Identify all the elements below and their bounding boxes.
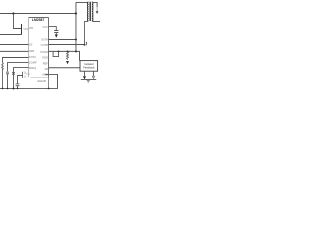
wire: left pin FREQ loop (14, 68, 29, 89)
wire: feedback right lead (93, 71, 95, 76)
wire: primary bottom to switch node (85, 21, 89, 44)
svg-text:GND: GND (42, 55, 48, 59)
node: dots on PGND rail (58, 50, 60, 52)
transformer T1 primary winding (87, 2, 88, 21)
transformer T1 secondary winding (92, 2, 93, 21)
wire: secondary top output (92, 2, 97, 7)
capacitor C3 marks (12, 72, 15, 74)
resistor R2 zigzag (67, 51, 69, 59)
wire: vertical VIN bus (75, 2, 77, 51)
svg-text:Isolated: Isolated (84, 62, 94, 66)
isolated feedback block (80, 61, 98, 72)
capacitor C5 plates (54, 31, 58, 33)
capacitor C4 plates (16, 84, 20, 86)
wire: top input rail (0, 12, 76, 14)
ground bars below rail (87, 80, 90, 82)
wire: bottom ground rail and GND loop (0, 74, 58, 88)
wire: bus to transformer primary top (76, 1, 88, 3)
wire: left pin SYNC loop (3, 58, 29, 63)
svg-text:Feedback: Feedback (83, 65, 95, 69)
svg-text:SYNC: SYNC (29, 55, 36, 59)
wire: secondary bottom output (92, 20, 100, 22)
node: switch node dot (84, 44, 86, 46)
node: input junction dot (12, 12, 14, 14)
wire: OUTB to transformer switch node (49, 44, 85, 46)
wire: FB pin to isolated feedback box (49, 67, 81, 69)
transformer T1 core (89, 2, 92, 21)
wire: faint lower part (96, 7, 98, 11)
resistor R1 zigzag (2, 63, 4, 89)
wire: feedback left lead (84, 71, 86, 76)
wire: C2 to rail (7, 74, 9, 88)
svg-text:OUTB: OUTB (41, 43, 48, 47)
node: OUTA junction dot (75, 38, 77, 40)
svg-text:FB: FB (45, 67, 49, 71)
wire: lower input rail (0, 34, 22, 36)
arrow open return (92, 76, 94, 79)
svg-text:PGND: PGND (40, 50, 48, 54)
op-amp/regulator U1 box (29, 17, 49, 77)
arrow filled output (83, 76, 86, 79)
wire: left pin NFB (0, 50, 28, 52)
svg-text:LM2587: LM2587 (32, 18, 44, 22)
wire: left pin COMP loop (8, 63, 29, 72)
wire: PGND rail to feedback box (49, 51, 80, 60)
wire: C5 stub (55, 33, 57, 34)
svg-text:COMP: COMP (29, 61, 37, 65)
wire: AGND drop (48, 74, 50, 88)
wire: branch with C4 (18, 76, 23, 84)
svg-text:VIN: VIN (23, 27, 28, 31)
wire: OUTA rail (49, 38, 77, 40)
wire: C4 to rail (17, 86, 19, 88)
wire: stub up at x22.6 (22, 72, 24, 78)
ground arrow under R2 (66, 61, 69, 64)
svg-text:SS: SS (29, 43, 33, 47)
svg-text:OUTA: OUTA (41, 37, 48, 41)
component X1 (open-top box) (53, 51, 58, 56)
capacitor C2 plates (6, 72, 9, 74)
wire: VCC pin to bypass cap (49, 27, 57, 31)
svg-text:AGND: AGND (37, 79, 47, 83)
wire: left pin SS (0, 44, 28, 46)
svg-text:FREQ: FREQ (29, 66, 36, 70)
svg-text:NFB: NFB (29, 49, 34, 53)
wire: output reference rail (81, 79, 96, 81)
svg-text:VCC: VCC (42, 25, 48, 29)
output arrow filled (96, 11, 99, 14)
svg-text:REF: REF (43, 61, 49, 65)
capacitor C1 plate (21, 24, 23, 34)
wire: drop from rail to input cap (13, 13, 21, 28)
pin number 1 glyph (85, 42, 88, 45)
ground arrow under C5 (55, 34, 58, 37)
node: rail dots (2, 88, 4, 90)
svg-text:PG: PG (26, 73, 30, 76)
svg-text:VIN: VIN (29, 26, 33, 30)
node: bus-rail junction dot (75, 12, 77, 14)
